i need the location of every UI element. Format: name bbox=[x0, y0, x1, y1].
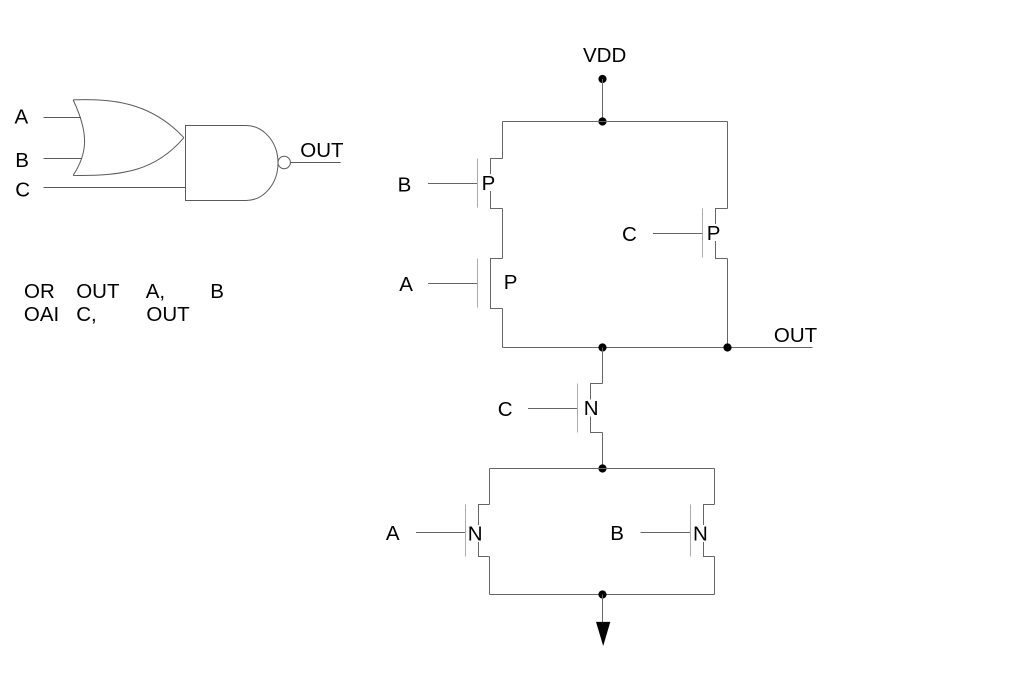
wire rail to Q5 drain bbox=[489, 469, 491, 505]
wire NMOS pair top rail bbox=[490, 468, 715, 470]
svg-text:B: B bbox=[210, 280, 224, 303]
svg-text:C: C bbox=[498, 398, 513, 421]
svg-text:A: A bbox=[399, 273, 413, 296]
NAND output bubble bbox=[278, 156, 290, 168]
Q4 channel and source/drain steps bbox=[591, 384, 603, 433]
wire VDD stub bbox=[602, 79, 604, 122]
Q6 N label bbox=[692, 525, 708, 542]
ground bbox=[596, 622, 610, 646]
wire rail to Q1 drain bbox=[502, 122, 504, 159]
junction dot OUT left bbox=[598, 343, 606, 351]
svg-text:A,: A, bbox=[146, 280, 165, 303]
svg-text:OUT: OUT bbox=[774, 324, 818, 347]
netlist text line 2 bbox=[24, 303, 190, 326]
transistor Q3 PMOS (gate C) bbox=[622, 209, 728, 259]
svg-text:C: C bbox=[15, 179, 30, 202]
wire OUT rail bbox=[503, 347, 813, 349]
svg-text:P: P bbox=[482, 172, 496, 195]
svg-text:B: B bbox=[610, 522, 624, 545]
wire C to NAND gate bbox=[44, 187, 186, 189]
Q4 N label bbox=[583, 400, 599, 417]
wire Q4 gate lead bbox=[528, 408, 578, 410]
svg-text:VDD: VDD bbox=[583, 44, 626, 67]
Q3 channel and source/drain steps bbox=[716, 209, 728, 259]
wire Q5 gate lead bbox=[416, 532, 466, 534]
Q2 gate bar bbox=[477, 259, 479, 308]
svg-text:P: P bbox=[504, 271, 518, 294]
wire VDD rail bbox=[503, 121, 728, 123]
svg-text:N: N bbox=[468, 523, 483, 546]
wire Q2 source to OUT rail bbox=[502, 309, 504, 348]
junction dot pair rail bbox=[598, 464, 606, 472]
VDD terminal dot bbox=[598, 75, 606, 83]
transistor Q5 NMOS (gate A) bbox=[386, 505, 490, 557]
Q1 gate bar bbox=[477, 159, 479, 208]
Q5 gate bar bbox=[465, 505, 467, 557]
wire B to OR gate bbox=[44, 158, 83, 160]
svg-text:C: C bbox=[622, 223, 637, 246]
wire Q4 source to pair rail bbox=[602, 433, 604, 469]
junction dot OUT right bbox=[723, 343, 731, 351]
svg-text:A: A bbox=[15, 105, 29, 128]
Q1 P label bbox=[481, 174, 496, 191]
svg-text:P: P bbox=[707, 222, 721, 245]
Q4 gate bar bbox=[577, 384, 579, 433]
OR gate G1 bbox=[73, 100, 184, 176]
svg-text:OUT: OUT bbox=[76, 280, 120, 303]
svg-text:N: N bbox=[584, 397, 599, 420]
junction dot ground rail bbox=[598, 590, 606, 598]
transistor Q6 NMOS (gate B) bbox=[610, 505, 714, 557]
wire Q3 source to OUT rail bbox=[727, 259, 729, 348]
wire Q2 gate lead bbox=[428, 283, 478, 285]
svg-text:A: A bbox=[386, 522, 400, 545]
wire Q5 source to ground rail bbox=[489, 557, 491, 595]
Q2 channel and source/drain steps bbox=[491, 259, 503, 309]
Q3 gate bar bbox=[702, 209, 704, 258]
svg-text:OR: OR bbox=[24, 280, 55, 303]
svg-text:OAI: OAI bbox=[24, 303, 59, 326]
svg-text:OUT: OUT bbox=[300, 139, 344, 162]
svg-text:B: B bbox=[398, 174, 412, 197]
svg-text:N: N bbox=[693, 523, 708, 546]
wire Q6 gate lead bbox=[641, 532, 691, 534]
svg-text:B: B bbox=[15, 149, 29, 172]
wire ground stub bbox=[602, 595, 604, 623]
Q3 P label bbox=[706, 224, 721, 241]
transistor Q4 NMOS (gate C) bbox=[498, 384, 603, 433]
wire A to OR gate bbox=[44, 117, 82, 119]
NAND gate U1 (AND body) bbox=[186, 126, 279, 201]
Q5 N label bbox=[467, 525, 483, 542]
svg-text:C,: C, bbox=[76, 303, 97, 326]
transistor Q2 PMOS (gate A) bbox=[399, 259, 517, 309]
wire Q6 source to ground rail bbox=[714, 557, 716, 595]
Q6 gate bar bbox=[690, 505, 692, 557]
wire Q1 gate lead bbox=[428, 183, 478, 185]
wire Q3 gate lead bbox=[653, 233, 703, 235]
wire Q1 source to Q2 drain bbox=[502, 209, 504, 259]
wire OUT to Q4 drain bbox=[602, 348, 604, 384]
Q6 channel and source/drain steps bbox=[704, 505, 715, 557]
wire OUT from bubble bbox=[291, 162, 341, 164]
wire ground rail bbox=[490, 594, 715, 596]
svg-text:OUT: OUT bbox=[146, 303, 190, 326]
netlist text line 1 bbox=[24, 280, 224, 303]
junction dot on VDD rail bbox=[598, 117, 606, 125]
transistor Q1 PMOS (gate B) bbox=[398, 159, 503, 209]
Q1 channel and source/drain steps bbox=[491, 159, 503, 209]
Q5 channel and source/drain steps bbox=[479, 505, 490, 557]
wire rail to Q3 drain bbox=[727, 122, 729, 209]
wire rail to Q6 drain bbox=[714, 469, 716, 505]
